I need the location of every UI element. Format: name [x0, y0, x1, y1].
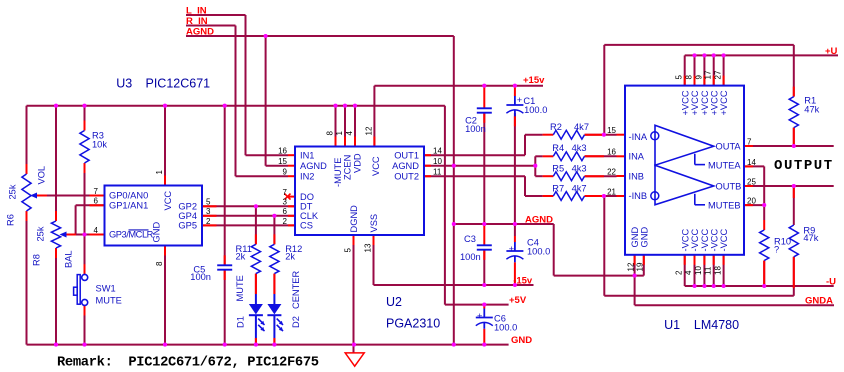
- svg-text:15: 15: [278, 157, 287, 166]
- svg-text:GP1/AN1: GP1/AN1: [109, 201, 148, 211]
- svg-text:U3: U3: [116, 77, 132, 91]
- svg-text:21: 21: [607, 187, 616, 196]
- svg-text:OUT2: OUT2: [394, 171, 419, 181]
- svg-text:OUTA: OUTA: [716, 142, 742, 152]
- svg-text:13: 13: [364, 243, 373, 252]
- svg-text:OUT1: OUT1: [394, 150, 419, 160]
- svg-text:+VCC: +VCC: [709, 90, 719, 115]
- svg-text:VCC: VCC: [163, 191, 173, 211]
- svg-text:16: 16: [278, 147, 287, 156]
- svg-text:BAL: BAL: [64, 250, 74, 268]
- svg-text:47k: 47k: [803, 233, 818, 243]
- svg-text:VSS: VSS: [369, 214, 379, 233]
- svg-text:MUTEA: MUTEA: [708, 160, 741, 170]
- svg-text:GND: GND: [152, 222, 162, 243]
- svg-text:100n: 100n: [465, 124, 486, 134]
- svg-text:9: 9: [283, 168, 288, 177]
- svg-text:100.0: 100.0: [527, 247, 550, 257]
- svg-text:LM4780: LM4780: [694, 318, 739, 332]
- svg-text:U1: U1: [664, 318, 680, 332]
- svg-text:10k: 10k: [92, 140, 107, 150]
- svg-text:DT: DT: [300, 202, 313, 212]
- svg-text:4k7: 4k7: [574, 122, 589, 132]
- svg-text:25: 25: [747, 177, 756, 186]
- svg-text:17: 17: [704, 70, 713, 79]
- svg-text:MUTE: MUTE: [235, 275, 245, 301]
- svg-text:5: 5: [675, 75, 684, 80]
- svg-text:DO: DO: [300, 192, 314, 202]
- svg-text:100n: 100n: [190, 272, 211, 282]
- svg-text:-VCC: -VCC: [680, 228, 690, 251]
- svg-text:2: 2: [206, 217, 211, 226]
- svg-text:C3: C3: [464, 234, 476, 244]
- svg-text:11: 11: [703, 266, 712, 275]
- svg-text:-15v: -15v: [513, 276, 533, 287]
- svg-text:100n: 100n: [460, 252, 481, 262]
- svg-text:-VCC: -VCC: [690, 228, 700, 251]
- svg-text:-MUTE: -MUTE: [333, 158, 343, 187]
- svg-text:ZCEN: ZCEN: [343, 155, 353, 180]
- svg-text:+: +: [509, 244, 514, 254]
- svg-text:3: 3: [206, 207, 211, 216]
- svg-text:Remark: PIC12C671/672, PIC12F: Remark: PIC12C671/672, PIC12F675: [57, 355, 319, 371]
- svg-text:PGA2310: PGA2310: [386, 317, 440, 331]
- svg-text:R6: R6: [6, 214, 16, 226]
- svg-text:+VCC: +VCC: [690, 90, 700, 115]
- svg-text:5: 5: [344, 248, 353, 253]
- svg-text:7: 7: [283, 188, 288, 197]
- svg-text:1: 1: [155, 170, 164, 175]
- svg-text:R8: R8: [32, 254, 42, 266]
- svg-text:10: 10: [433, 157, 442, 166]
- svg-text:+: +: [477, 311, 482, 321]
- svg-text:100.0: 100.0: [494, 323, 517, 333]
- svg-text:L_IN: L_IN: [186, 6, 207, 17]
- svg-text:AGND: AGND: [186, 27, 214, 38]
- svg-text:INB: INB: [629, 172, 645, 182]
- svg-text:2k: 2k: [236, 252, 246, 262]
- svg-text:2: 2: [674, 270, 683, 275]
- svg-text:16: 16: [607, 148, 616, 157]
- svg-text:OUTB: OUTB: [716, 182, 742, 192]
- svg-text:4k7: 4k7: [572, 184, 587, 194]
- svg-text:+VCC: +VCC: [719, 90, 729, 115]
- svg-text:+15v: +15v: [523, 75, 545, 86]
- svg-text:R_IN: R_IN: [186, 16, 208, 27]
- svg-text:+: +: [517, 95, 522, 105]
- svg-text:8: 8: [155, 261, 164, 266]
- svg-text:25k: 25k: [36, 226, 46, 241]
- svg-text:R5: R5: [552, 164, 564, 174]
- svg-text:CS: CS: [300, 221, 313, 231]
- svg-text:11: 11: [433, 168, 442, 177]
- svg-text:VDD: VDD: [353, 153, 363, 173]
- svg-text:AGND: AGND: [300, 161, 327, 171]
- svg-text:-VCC: -VCC: [709, 228, 719, 251]
- svg-text:+VCC: +VCC: [680, 90, 690, 115]
- svg-text:-U: -U: [826, 277, 836, 288]
- svg-text:D2: D2: [291, 316, 301, 328]
- svg-text:22: 22: [607, 167, 616, 176]
- svg-text:R2: R2: [550, 122, 562, 132]
- svg-text:2k: 2k: [285, 252, 295, 262]
- svg-text:+U: +U: [825, 46, 838, 57]
- svg-text:IN2: IN2: [300, 171, 314, 181]
- svg-text:U2: U2: [386, 295, 402, 309]
- svg-text:GND: GND: [511, 335, 532, 346]
- svg-text:GP2: GP2: [178, 202, 197, 212]
- svg-text:12: 12: [365, 126, 374, 135]
- svg-text:6: 6: [94, 197, 99, 206]
- svg-text:4: 4: [94, 226, 99, 235]
- svg-text:14: 14: [433, 147, 442, 156]
- svg-text:GNDA: GNDA: [805, 296, 833, 307]
- svg-text:GP4: GP4: [178, 211, 197, 221]
- svg-text:4: 4: [684, 270, 693, 275]
- svg-text:12: 12: [626, 262, 635, 271]
- svg-text:8: 8: [326, 131, 335, 136]
- svg-text:5: 5: [206, 198, 211, 207]
- svg-text:2: 2: [283, 217, 288, 226]
- svg-text:SW1: SW1: [96, 284, 116, 294]
- svg-text:100.0: 100.0: [524, 105, 547, 115]
- svg-text:4k3: 4k3: [572, 164, 587, 174]
- svg-text:GP0/AN0: GP0/AN0: [109, 191, 148, 201]
- svg-text:?: ?: [774, 245, 779, 255]
- svg-text:4: 4: [345, 131, 354, 136]
- svg-text:+5V: +5V: [509, 295, 527, 306]
- svg-text:9: 9: [694, 75, 703, 80]
- svg-text:DGND: DGND: [349, 205, 359, 233]
- svg-text:19: 19: [636, 262, 645, 271]
- svg-text:18: 18: [713, 266, 722, 275]
- svg-text:CENTER: CENTER: [291, 270, 301, 309]
- svg-text:INA: INA: [629, 152, 645, 162]
- svg-text:CLK: CLK: [300, 211, 319, 221]
- svg-text:-VCC: -VCC: [719, 228, 729, 251]
- svg-text:14: 14: [747, 158, 756, 167]
- svg-text:20: 20: [747, 197, 756, 206]
- svg-text:AGND: AGND: [392, 161, 419, 171]
- svg-text:VOL: VOL: [37, 166, 47, 185]
- svg-text:1: 1: [335, 131, 344, 136]
- svg-text:AGND: AGND: [525, 215, 553, 226]
- svg-text:MUTEB: MUTEB: [708, 200, 741, 210]
- svg-text:-INA: -INA: [629, 132, 648, 142]
- svg-text:10: 10: [694, 266, 703, 275]
- svg-text:25k: 25k: [8, 184, 18, 199]
- svg-text:4k3: 4k3: [572, 143, 587, 153]
- svg-text:IN1: IN1: [300, 150, 314, 160]
- svg-text:7: 7: [94, 187, 99, 196]
- svg-text:GP3/MCLR: GP3/MCLR: [109, 230, 154, 240]
- svg-text:3: 3: [283, 198, 288, 207]
- svg-text:OUTPUT: OUTPUT: [774, 158, 834, 174]
- svg-text:GND: GND: [639, 227, 649, 248]
- svg-text:6: 6: [283, 207, 288, 216]
- svg-text:R4: R4: [552, 143, 564, 153]
- svg-text:27: 27: [714, 70, 723, 79]
- svg-text:MUTE: MUTE: [96, 296, 122, 306]
- svg-text:VCC: VCC: [371, 156, 381, 176]
- svg-text:7: 7: [747, 137, 752, 146]
- svg-text:15: 15: [607, 126, 616, 135]
- svg-text:47k: 47k: [804, 105, 819, 115]
- svg-text:8: 8: [685, 75, 694, 80]
- svg-text:GP5: GP5: [178, 221, 197, 231]
- svg-text:PIC12C671: PIC12C671: [146, 77, 211, 91]
- svg-text:R7: R7: [552, 184, 564, 194]
- svg-text:D1: D1: [236, 316, 246, 328]
- svg-text:-INB: -INB: [629, 191, 648, 201]
